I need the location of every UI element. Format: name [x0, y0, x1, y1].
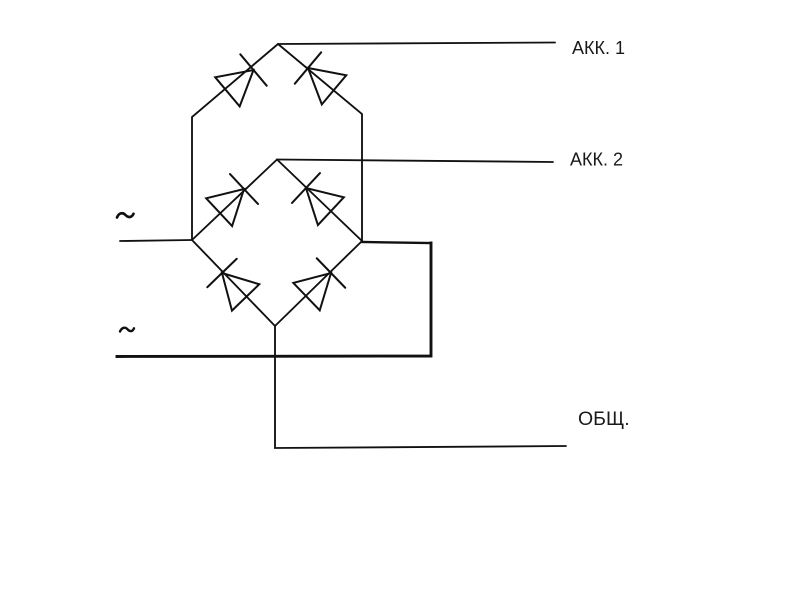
svg-text:АКК. 1: АКК. 1 — [572, 38, 625, 58]
svg-text:АКК. 2: АКК. 2 — [570, 150, 623, 170]
svg-text:ОБЩ.: ОБЩ. — [578, 408, 630, 430]
